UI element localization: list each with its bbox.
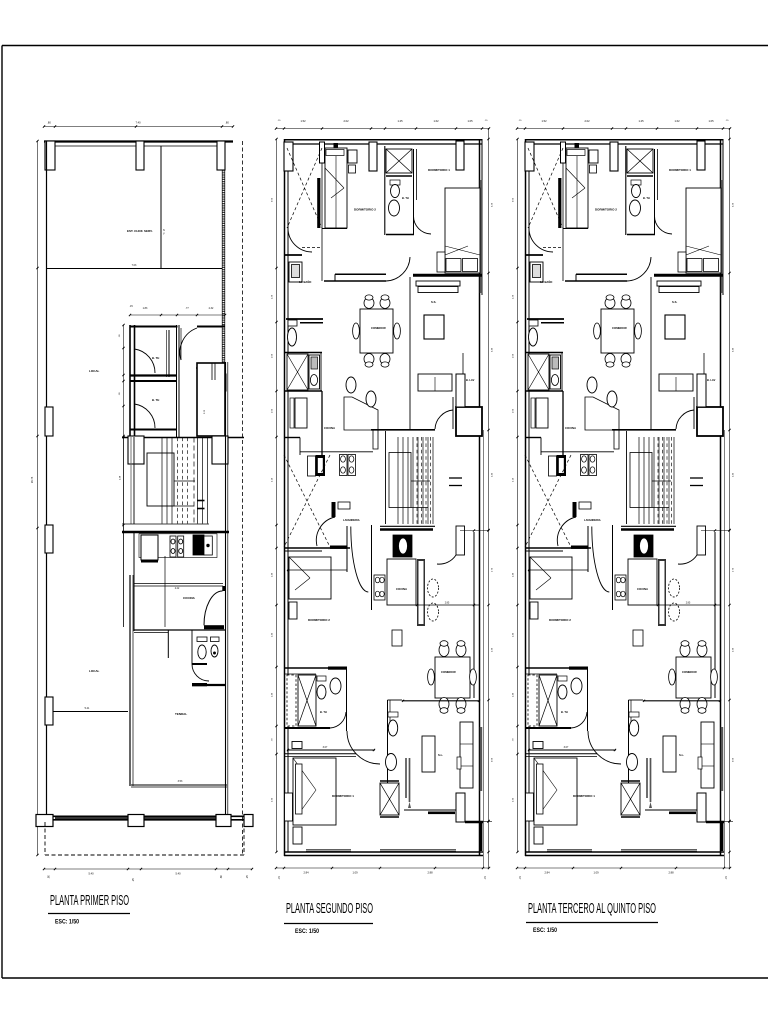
- plan1 kitchen counter outline: [139, 534, 217, 558]
- apt kitchen upper stove: [340, 455, 348, 476]
- plan1 kitchen burner boxes: [170, 536, 176, 557]
- apt bed dorm2 upper: [325, 148, 347, 228]
- svg-text:PLANTA TERCERO AL QUINTO PISO: PLANTA TERCERO AL QUINTO PISO: [528, 901, 656, 917]
- plan1 kitchen stove black: [193, 535, 204, 555]
- apt bath upper toilet: [390, 180, 400, 185]
- plan1 bottom wall: [36, 815, 253, 817]
- svg-text:COMEDOR: COMEDOR: [371, 326, 386, 330]
- apt kitchen upper counter: [300, 451, 373, 453]
- plan1 bottom wall column mid-right: [216, 815, 231, 827]
- plan1 elevator box: [197, 363, 225, 436]
- apt top wall column C: [369, 142, 377, 171]
- apt chef figure 2: [366, 391, 376, 407]
- svg-text:.25: .25: [132, 878, 135, 882]
- apt toilet lower hall: [388, 712, 398, 717]
- apt bath upper divider wall: [386, 175, 412, 177]
- plan1 column under elevator: [212, 436, 228, 464]
- apt left dimension line: [276, 139, 278, 852]
- apt dining lower chairs bottom: [439, 698, 449, 711]
- apt top wall: [284, 139, 482, 141]
- apt nightstand dorm2 lower: [289, 602, 297, 619]
- apt dining upper chair right: [394, 323, 401, 339]
- apt sala upper tv cabinet: [416, 281, 460, 286]
- apt closet door arc top-left: [288, 228, 312, 252]
- plan1 bath3 left wall: [167, 630, 169, 658]
- svg-text:LOCAL: LOCAL: [89, 369, 99, 373]
- plan1 bath1 bottom wall: [130, 374, 176, 376]
- apt hall door arc: [386, 257, 410, 281]
- svg-text:16.75: 16.75: [30, 476, 34, 483]
- apt big door arc lower hall: [351, 527, 369, 593]
- plan1 kitchen fridge: [141, 535, 158, 560]
- apt bath upper door arc: [414, 216, 432, 234]
- plan1 stairs bottom line: [122, 523, 209, 525]
- apt lower hall door arc: [347, 731, 380, 764]
- plan1 corridor wall double: [176, 325, 178, 437]
- svg-text:ESC: 1/50: ESC: 1/50: [295, 928, 319, 935]
- plan1 bottom dimension line: [44, 868, 252, 870]
- apt closet X top-left: [287, 148, 322, 228]
- apt lower kitchen fridge: [393, 535, 412, 557]
- apt wall below closet bottom: [380, 816, 399, 818]
- apt sala divider line: [416, 604, 480, 606]
- apt bed dorm1 lower pillow column: [296, 764, 303, 814]
- svg-text:B. TH: B. TH: [152, 398, 159, 402]
- apt right extension lines: [488, 128, 490, 868]
- apt top wall column A: [284, 142, 293, 171]
- apt lower kitchen stove: [374, 575, 385, 600]
- plan1 top dimension line: [44, 126, 233, 128]
- svg-text:LOCAL: LOCAL: [89, 669, 99, 673]
- apt bath upper right wall: [413, 149, 415, 235]
- plan1 stairs break ticks: [197, 500, 205, 502]
- apt dining lower chair right: [470, 669, 477, 685]
- plan1 local right wall: [129, 575, 131, 786]
- apt bed dorm1 pillows: [446, 259, 461, 272]
- apt washer box: [295, 398, 307, 428]
- plan1 bath3 bottom wall: [192, 684, 226, 686]
- apt dim tick balcony: [483, 821, 492, 823]
- plan1 local divider line: [47, 711, 129, 713]
- plan1 mid wall under baths: [122, 437, 244, 439]
- apt bed dorm2 lower: [289, 557, 331, 599]
- apt closet X bottom: [380, 783, 399, 815]
- apt bath block left wall: [384, 146, 386, 235]
- apt bed dorm2 lower line: [287, 569, 347, 571]
- apt door leaf hall: [452, 397, 454, 429]
- apt dining lower table: [435, 657, 470, 698]
- apt left wall: [284, 139, 286, 856]
- plan1 bath block left wall dashed: [129, 325, 131, 436]
- apt dim arrow line dorm1 lower: [287, 749, 375, 751]
- apt hall upper left wall: [409, 277, 411, 429]
- plan1 kitchen counter lines lower: [134, 583, 223, 585]
- svg-text:EST. CHOF. SERV.: EST. CHOF. SERV.: [127, 229, 153, 233]
- svg-text:2.02: 2.02: [343, 119, 349, 123]
- apt sala upper sofa back line: [462, 353, 464, 390]
- apt top dimension line: [276, 128, 489, 130]
- plan3 title underline: [526, 922, 658, 924]
- plan1 garage divider wall: [47, 268, 223, 270]
- apt wall left lower: [284, 547, 350, 549]
- plan1 column under bath: [128, 436, 144, 464]
- apt closet X bath lower: [298, 675, 316, 726]
- plan1 bath1 right wall: [168, 330, 170, 377]
- apt closet X dorm1 upper: [386, 149, 412, 173]
- svg-text:PLANTA SEGUNDO PISO: PLANTA SEGUNDO PISO: [286, 901, 373, 917]
- svg-text:DORMITORIO 1: DORMITORIO 1: [332, 794, 354, 798]
- svg-text:B. TH: B. TH: [152, 356, 159, 360]
- plan1 tendal bottom wall: [131, 784, 227, 786]
- svg-text:COCINA: COCINA: [396, 587, 407, 591]
- plan1 stair hall left walls: [123, 437, 125, 627]
- plan1 hall door arc: [180, 328, 197, 360]
- apt right window band upper: [480, 180, 482, 293]
- apt sofa lower right: [460, 722, 473, 788]
- svg-text:1.52: 1.52: [300, 119, 306, 123]
- svg-text:.25: .25: [246, 875, 249, 879]
- apt sink lower hall: [386, 754, 397, 771]
- apt dim arrow line comedor: [402, 700, 480, 702]
- apt lavanderia sink: [338, 502, 350, 509]
- apt wall left mid: [284, 437, 300, 439]
- apt stairs rail box: [389, 453, 411, 508]
- plan1 kitchen door arc: [204, 591, 223, 625]
- apt window bar gray: [405, 758, 407, 798]
- sheet border left: [1, 46, 3, 979]
- plan1 hatch column break: [217, 374, 226, 391]
- apt balcony column: [456, 793, 465, 822]
- apt wall sala dorm divider: [284, 753, 356, 755]
- apt kitchen upper door sill black: [316, 455, 326, 476]
- apt lower kitchen counter: [387, 559, 416, 605]
- plan1 bath3 door arc: [192, 664, 209, 681]
- plan1 left wall window column 2: [45, 525, 53, 553]
- svg-text:2.84: 2.84: [303, 871, 309, 875]
- apt bed dorm1 lower headboard: [285, 793, 293, 821]
- apt kitchen upper fridge: [308, 456, 316, 476]
- svg-text:5.41: 5.41: [85, 707, 90, 710]
- svg-text:2.88: 2.88: [427, 871, 433, 875]
- apt coffee table lower: [422, 736, 435, 772]
- apt stairs treads: [397, 437, 399, 524]
- apt laundry top wall: [284, 352, 322, 354]
- svg-text:.80: .80: [220, 875, 223, 879]
- plan1 bath3 bidet: [211, 637, 220, 642]
- plan1 bath1 door arc: [135, 349, 156, 373]
- apt stair top wall: [371, 429, 435, 431]
- apt hall lower top wall: [388, 699, 403, 701]
- apt lower kitchen counter edge dark: [417, 559, 425, 626]
- plan1 bath2 top wall: [130, 380, 176, 382]
- apt lower kitchen left wall: [371, 525, 373, 610]
- plan1 left inner dimension line: [123, 325, 125, 436]
- plan1 bath3 inner wall: [191, 630, 193, 664]
- apt bottom wall: [284, 851, 483, 853]
- apt nightstand dorm1 lower: [293, 827, 302, 844]
- apt hall wall right thick: [413, 274, 482, 277]
- apt balcony rail line: [404, 809, 456, 811]
- plan1 kitchen oven: [204, 536, 212, 555]
- plan1 title underline: [48, 913, 130, 915]
- apt corridor wall mid: [321, 391, 323, 455]
- svg-text:B. TH: B. TH: [402, 196, 409, 200]
- plan3 apartment (copy of plan2): [513, 119, 735, 880]
- apt hall lower toilet room wall: [387, 700, 389, 783]
- svg-text:S.S.: S.S.: [431, 300, 437, 304]
- svg-text:1.09: 1.09: [352, 871, 358, 875]
- apt wall right of kitchen: [371, 429, 403, 431]
- svg-text:COMEDOR: COMEDOR: [441, 670, 456, 674]
- apt stairs break ticks: [449, 477, 462, 479]
- apt stairs mid line: [385, 489, 389, 491]
- plan1 bath3 door leaf: [192, 663, 207, 665]
- apt closet bottom dashed: [302, 247, 322, 249]
- plan1 bath block top wall: [130, 326, 178, 328]
- apt dorm2 lower right wall: [346, 526, 348, 572]
- apt top wall column D: [456, 141, 464, 170]
- apt dining lower chair left: [428, 669, 435, 685]
- svg-text:1.25: 1.25: [397, 119, 403, 123]
- svg-text:7.03: 7.03: [132, 264, 137, 267]
- apt sala upper coffee table: [424, 315, 444, 339]
- apt laundry sink: [309, 355, 320, 389]
- svg-text:5.40: 5.40: [175, 872, 181, 876]
- apt bottom window sill left: [306, 848, 351, 850]
- plan1 kitchen divider line: [164, 556, 166, 627]
- plan1 bath2 door arc: [135, 404, 156, 428]
- svg-text:5.40: 5.40: [88, 872, 94, 876]
- svg-text:TENDAL: TENDAL: [175, 712, 187, 716]
- svg-text:.80: .80: [48, 875, 51, 879]
- apt toilet room wall: [286, 318, 323, 320]
- apt wall above closet bottom: [380, 780, 399, 782]
- apt bath upper sink: [389, 200, 400, 216]
- apt dining upper chair left: [353, 323, 360, 339]
- apt toilet bath lower: [317, 676, 326, 681]
- apt kitchen lower small box: [392, 630, 402, 646]
- svg-text:3.53: 3.53: [178, 780, 183, 783]
- apt bed dorm1 lower: [293, 758, 336, 825]
- plan1 window sill right: [144, 816, 216, 818]
- plan1 stairs rail box: [147, 453, 174, 506]
- plan1 bath3 toilet: [197, 637, 207, 642]
- plan1 bottom wall column right: [244, 815, 253, 827]
- apt lower closet X: [284, 455, 330, 547]
- apt half bath washbasin: [289, 262, 302, 282]
- apt washer dashed bath lower: [287, 675, 296, 726]
- plan1 top wall column B: [136, 141, 144, 170]
- svg-text:DORMITORIO 2: DORMITORIO 2: [308, 618, 330, 622]
- apt elevator shaft: [456, 407, 482, 436]
- apt wall under laundry: [284, 390, 322, 392]
- plan1 wall below stairs: [122, 531, 229, 533]
- apt lower kitchen door leaf: [332, 502, 336, 517]
- apt bath lower bottom wall: [284, 727, 330, 729]
- apt bed dorm1 upper: [445, 188, 480, 273]
- apt wall below stairs: [380, 525, 435, 527]
- apt shower box: [287, 354, 308, 390]
- svg-text:PLANTA PRIMER PISO: PLANTA PRIMER PISO: [50, 893, 129, 909]
- svg-text:1.05: 1.05: [467, 119, 473, 123]
- apt lower door sill dark: [330, 546, 347, 549]
- plan1 garage middle line: [160, 146, 162, 268]
- plan1 property dashed rect: [45, 854, 244, 856]
- plan1 middle dimension line: [130, 314, 225, 316]
- plan1 kitchen left wall: [133, 532, 135, 631]
- apt dorm1 lower top column: [292, 742, 302, 749]
- plan1 right boundary dashed: [242, 141, 244, 855]
- apt top door sill: [334, 143, 339, 148]
- svg-text:ESC: 1/50: ESC: 1/50: [55, 919, 79, 926]
- svg-text:2.32: 2.32: [209, 307, 214, 310]
- svg-text:.80: .80: [225, 121, 229, 125]
- plan1 left wall window column 1: [45, 407, 53, 436]
- apt bath upper bottom wall: [386, 234, 414, 236]
- apt dining upper chairs bottom: [364, 354, 374, 365]
- svg-text:LAVANDERIA: LAVANDERIA: [343, 518, 360, 522]
- svg-text:ESC: 1/50: ESC: 1/50: [533, 927, 557, 934]
- apt kitchen chef counter: [344, 397, 378, 449]
- svg-text:7.40: 7.40: [135, 121, 141, 125]
- svg-text:.80: .80: [47, 121, 51, 125]
- apt half bath toilet: [288, 320, 297, 326]
- svg-text:COCINA: COCINA: [183, 596, 196, 600]
- apt dining lower chairs top: [439, 644, 449, 657]
- plan1 bath3 door sill: [192, 683, 207, 686]
- apt sala upper sofa: [418, 374, 452, 391]
- plan1 left dimension line: [37, 141, 39, 855]
- apt right window band lower: [480, 727, 482, 791]
- apt stairs left wall: [385, 431, 387, 524]
- apt nightstand dorm2 upper: [348, 150, 357, 163]
- plan1 left wall window column 3: [45, 697, 53, 725]
- apt top wall stub B: [320, 142, 325, 163]
- plan1 kitchen door jamb: [222, 586, 225, 591]
- apt right wall: [479, 139, 481, 856]
- apt chef figure 1: [346, 377, 356, 393]
- plan1 top wall column C: [217, 141, 225, 170]
- svg-text:1.62: 1.62: [433, 119, 439, 123]
- svg-text:2.22: 2.22: [175, 588, 180, 590]
- apt balcony dark sill: [428, 812, 455, 815]
- apt elevator column: [456, 374, 465, 407]
- apt dining upper chairs top: [364, 298, 374, 309]
- svg-text:B. TH: B. TH: [320, 710, 327, 714]
- apt party wall dark: [317, 178, 320, 228]
- apt dining lower chairs dashed: [428, 579, 439, 597]
- apt balcony bottom wall thick: [465, 821, 483, 824]
- svg-text:COCINA: COCINA: [324, 426, 335, 430]
- svg-text:3.07: 3.07: [323, 746, 328, 749]
- plan2 title underline: [284, 923, 373, 925]
- plan1 stairs treads: [161, 438, 163, 524]
- apt sink bath lower: [330, 678, 341, 694]
- apt wall bath mid lower top: [284, 667, 347, 669]
- apt bath lower door arc: [330, 712, 346, 728]
- apt bottom dimension line: [276, 867, 489, 869]
- plan1 hall top wall: [197, 326, 225, 328]
- apt bath lower right wall: [346, 668, 348, 731]
- apt lower kitchen door arc: [316, 517, 335, 546]
- apt balcony right dark wall: [480, 823, 483, 851]
- plan1 window sill left: [55, 816, 128, 818]
- sheet border bottom: [2, 977, 768, 979]
- svg-text:1.83: 1.83: [143, 307, 148, 310]
- svg-text:DORMITORIO 2: DORMITORIO 2: [354, 208, 376, 212]
- apt dining upper table: [360, 309, 393, 353]
- apt half bath top wall: [284, 254, 302, 256]
- plan1 bottom wall column left: [36, 815, 53, 827]
- apt bottom window sill right: [380, 848, 456, 850]
- apt wall below dorm2: [322, 228, 347, 230]
- plan1 bottom wall column mid-left: [128, 815, 144, 827]
- svg-text:B. LAV: B. LAV: [466, 378, 475, 382]
- plan1 top wall: [44, 140, 233, 142]
- svg-text:DORMITORIO 1: DORMITORIO 1: [428, 168, 450, 172]
- apt door sill bath lower: [328, 667, 347, 670]
- apt door leaf lower hall: [456, 526, 465, 555]
- sheet border top: [2, 45, 768, 47]
- plan1 left wall: [46, 141, 48, 816]
- plan1 wall below kitchen: [134, 629, 226, 631]
- plan1 top wall column A: [45, 141, 55, 170]
- svg-text:S.L.: S.L.: [438, 753, 443, 757]
- plan1 bath2 bottom wall: [130, 429, 176, 431]
- apt dim line inside right: [460, 530, 489, 532]
- plan1 kitchen door sill dark: [204, 625, 224, 629]
- plan1 right wall double: [225, 362, 227, 816]
- svg-text:2.85: 2.85: [445, 603, 450, 605]
- plan1 right hatched wall strip: [222, 170, 225, 436]
- apt hall wall upper pair: [335, 273, 386, 275]
